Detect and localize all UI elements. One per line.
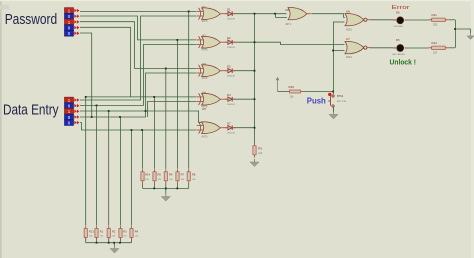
push button BTN1 — [328, 93, 334, 112]
resistor R14 — [141, 169, 144, 183]
XOR gate U1 — [197, 8, 227, 20]
svg-text:R4: R4 — [135, 229, 139, 233]
window top edge shading — [0, 0, 474, 1]
resistor R12 — [429, 46, 449, 49]
wire LED D6 to R11 — [405, 19, 429, 21]
junction node U8 input split — [274, 13, 276, 15]
resistor R10 — [287, 90, 303, 93]
resistor R6 — [164, 169, 167, 183]
wire R8 riser — [188, 11, 190, 168]
junction node push R10 — [332, 91, 334, 93]
junction node group2 bus c — [176, 188, 178, 190]
svg-text:Password: Password — [5, 11, 58, 28]
junction node group1 bus c — [119, 242, 121, 244]
LED D5 (Unlock) — [393, 45, 408, 52]
junction node R13 riser top — [85, 96, 87, 98]
wire P4 (password bit4 down to U4 top) — [80, 27, 131, 97]
wire U4 bottom riser — [148, 102, 197, 118]
svg-text:Error: Error — [392, 5, 410, 11]
svg-text:U2: U2 — [202, 34, 206, 38]
svg-text:D1: D1 — [227, 7, 231, 11]
svg-text:U6: U6 — [346, 9, 350, 13]
junction node D3 riser — [145, 110, 147, 112]
logic state D4 — [65, 114, 80, 120]
svg-text:R7: R7 — [181, 173, 185, 177]
wire P1 (password bit1 to U1 top) — [80, 10, 197, 12]
wire R10 to push node — [303, 91, 333, 93]
wire U4 top horizontal — [86, 96, 197, 98]
svg-text:D5: D5 — [396, 38, 400, 42]
resistor R2 — [107, 226, 110, 240]
svg-text:R9: R9 — [258, 147, 262, 151]
svg-text:Unlock !: Unlock ! — [390, 57, 417, 66]
svg-text:BTN1: BTN1 — [337, 95, 344, 98]
junction node push U7 — [332, 50, 334, 52]
wire R1 bottom stub — [96, 238, 98, 243]
wire D3 (data bit3 riser to U5 top) — [80, 111, 202, 122]
junction node group1 bus b — [108, 242, 110, 244]
junction node right rail — [454, 28, 456, 30]
junction node R8 riser — [188, 11, 190, 13]
junction node P5 bottom — [91, 116, 93, 118]
svg-text:R5: R5 — [158, 173, 162, 177]
XOR gate U3 — [197, 65, 227, 77]
logic state D5 — [65, 120, 80, 126]
wire D5 (data bit5 jog to U5 bottom) — [80, 123, 197, 130]
wire D1 (data bit1 riser to U1 bottom) — [80, 16, 197, 100]
svg-text:R3: R3 — [123, 229, 127, 233]
resistor R5 — [153, 169, 156, 183]
window left edge shading — [0, 0, 2, 258]
svg-text:4001: 4001 — [346, 55, 352, 59]
wire D2 (data bit2 riser to U2 bottom) — [80, 45, 197, 106]
wire R13 riser — [85, 97, 87, 226]
wire R4 bottom stub — [131, 238, 133, 243]
wire P3 (password bit3 down to U3 top) — [80, 22, 197, 69]
svg-text:BUTTON: BUTTON — [337, 101, 346, 103]
wire R5 riser — [154, 97, 156, 169]
wire R4 riser — [131, 130, 133, 226]
svg-text:D2: D2 — [227, 36, 231, 40]
power symbol VCC arrow — [276, 77, 280, 92]
ground below R9 — [250, 159, 259, 167]
resistor R7 — [176, 169, 179, 183]
svg-text:U1: U1 — [202, 5, 206, 9]
wire push line vertical — [333, 22, 335, 94]
logic state P3 — [65, 19, 80, 25]
resistor R1 — [95, 226, 98, 240]
wire R12 to right rail — [448, 47, 455, 49]
wire U1 output to bus — [234, 13, 255, 15]
logic state D3 — [65, 108, 80, 114]
svg-text:U7: U7 — [346, 37, 350, 41]
junction node R6 riser — [165, 68, 167, 70]
junction node group2 bus b — [165, 188, 167, 190]
wire R6 riser — [165, 68, 167, 168]
NOR gate U6 — [345, 14, 370, 26]
XOR gate U2 — [197, 36, 227, 48]
svg-text:Push: Push — [307, 97, 326, 106]
svg-text:R14: R14 — [145, 173, 150, 177]
svg-text:R8: R8 — [192, 173, 196, 177]
svg-text:R11: R11 — [432, 13, 438, 17]
diode D7 — [225, 125, 235, 130]
resistor R9 — [253, 143, 256, 157]
svg-text:1N4148: 1N4148 — [227, 133, 235, 135]
junction node bus row3 — [254, 70, 256, 72]
wire bus to U8 inputs — [255, 13, 287, 15]
svg-text:220: 220 — [433, 24, 438, 27]
wire R5 bottom stub — [154, 183, 156, 188]
logic state P5 — [65, 30, 80, 36]
wire LED D5 to R12 — [405, 47, 429, 49]
svg-text:4071: 4071 — [285, 22, 291, 26]
wire bus row2 to U7 top input — [255, 42, 345, 44]
svg-text:LED-RED: LED-RED — [394, 26, 404, 28]
svg-text:U5: U5 — [202, 107, 206, 111]
logic state D2 — [65, 103, 80, 109]
diode D3 — [225, 68, 235, 73]
svg-text:R10: R10 — [289, 85, 295, 89]
wire U3 output to bus — [234, 70, 255, 72]
resistor R4 — [130, 226, 133, 240]
svg-text:R2: R2 — [112, 229, 116, 233]
LED D6 (Error) — [393, 17, 408, 24]
wire R1 riser — [96, 105, 98, 225]
junction node R5 riser — [153, 96, 155, 98]
svg-text:4070: 4070 — [202, 76, 208, 80]
junction node bus row1 — [254, 13, 256, 15]
XOR gate U5 — [197, 122, 227, 134]
wire R2 riser — [108, 111, 110, 226]
wire R14 bottom stub — [142, 183, 144, 188]
wire R13 bottom stub — [85, 238, 87, 243]
wire R2 bottom stub — [108, 238, 110, 243]
logic state D1 — [65, 97, 80, 103]
resistor R3 — [119, 226, 122, 240]
wire right rail vertical — [455, 20, 457, 48]
svg-text:U3: U3 — [202, 62, 206, 66]
wire R3 bottom stub — [120, 238, 122, 243]
wire P5 (password bit5 drop) — [80, 33, 92, 117]
wire power to R10 — [278, 91, 288, 93]
junction node R4 riser top — [131, 129, 133, 131]
wire U5 output to bus — [234, 127, 255, 129]
svg-text:R12: R12 — [432, 41, 438, 45]
NOR gate U7 — [345, 42, 370, 54]
window right edge shading — [471, 0, 474, 258]
wire R8 bottom stub — [188, 183, 190, 188]
wire push line to U7 bottom input — [333, 50, 345, 52]
junction node group1 bus a — [96, 242, 98, 244]
svg-text:R1: R1 — [100, 229, 104, 233]
wire U4 output to bus — [234, 98, 255, 100]
svg-text:4070: 4070 — [202, 134, 208, 138]
junction node R1 riser top — [96, 105, 98, 107]
wire push line to U6 bottom input — [333, 21, 345, 23]
junction node group1 ground tap — [113, 242, 115, 244]
svg-text:D4: D4 — [227, 93, 231, 97]
resistor R13 — [84, 226, 87, 240]
svg-text:U8: U8 — [285, 8, 289, 12]
junction node R2 riser top — [108, 110, 110, 112]
svg-text:D3: D3 — [227, 64, 231, 68]
junction node R14 riser — [141, 129, 143, 131]
svg-text:Data Entry: Data Entry — [3, 101, 59, 118]
ground below group2 resistors — [161, 194, 170, 202]
wire R6 bottom stub — [165, 183, 167, 188]
diode D4 — [225, 97, 235, 102]
logic state P4 — [65, 25, 80, 31]
svg-text:4070: 4070 — [202, 19, 208, 23]
junction node bus row2 — [254, 41, 256, 43]
svg-text:R13: R13 — [89, 229, 94, 233]
wire U2 output to bus — [234, 41, 255, 43]
wire group2 ground bus — [143, 187, 189, 189]
svg-text:1N4148: 1N4148 — [227, 19, 235, 21]
svg-text:D7: D7 — [227, 121, 231, 125]
logic state P2 — [65, 13, 80, 19]
wire D4 (data bit4 to risers) — [80, 73, 197, 117]
wire U8 output to U6 — [312, 14, 345, 18]
svg-text:U4: U4 — [202, 91, 206, 95]
svg-text:LED-GREEN: LED-GREEN — [392, 54, 405, 56]
junction node bus row5 — [254, 127, 256, 129]
diode D2 — [225, 40, 235, 45]
svg-text:R6: R6 — [169, 173, 173, 177]
wire R14 riser — [142, 130, 144, 169]
wire right rail to ground — [455, 29, 471, 33]
OR gate U8 — [288, 8, 312, 20]
junction node R3 riser top — [119, 116, 121, 118]
wire R7 bottom stub — [177, 183, 179, 188]
svg-text:1N4148: 1N4148 — [227, 76, 235, 78]
svg-text:D6: D6 — [396, 10, 400, 14]
junction node R7 riser — [176, 39, 178, 41]
wire group1 ground drop — [114, 243, 116, 246]
svg-text:1N4148: 1N4148 — [227, 47, 235, 49]
svg-text:4001: 4001 — [346, 27, 352, 31]
wire diode-OR bus vertical — [254, 14, 256, 144]
wire P2 (password bit2 down to U2 top) — [80, 16, 197, 40]
wire U6 output to LED D6 — [370, 19, 396, 21]
ground below group1 resistors — [110, 246, 119, 254]
logic state P1 — [65, 8, 80, 14]
ground below push button — [329, 111, 338, 119]
ground right rail — [467, 33, 474, 39]
junction node group2 bus a — [153, 188, 155, 190]
wire group2 ground drop — [165, 188, 167, 193]
junction node bus row4 — [254, 98, 256, 100]
wire U7 output to LED D5 — [370, 47, 396, 49]
wire R11 to right rail — [448, 19, 455, 21]
svg-text:1N4148: 1N4148 — [227, 104, 235, 106]
resistor R8 — [187, 169, 190, 183]
wire U8 lower input branch — [276, 14, 288, 18]
wire R7 riser — [177, 40, 179, 169]
wire R3 riser — [120, 117, 122, 226]
resistor R11 — [429, 18, 449, 21]
svg-text:220: 220 — [433, 52, 438, 55]
svg-text:4070: 4070 — [202, 47, 208, 51]
XOR gate U4 — [197, 93, 227, 105]
diode D1 — [225, 11, 235, 16]
wire group1 ground bus — [86, 242, 132, 244]
